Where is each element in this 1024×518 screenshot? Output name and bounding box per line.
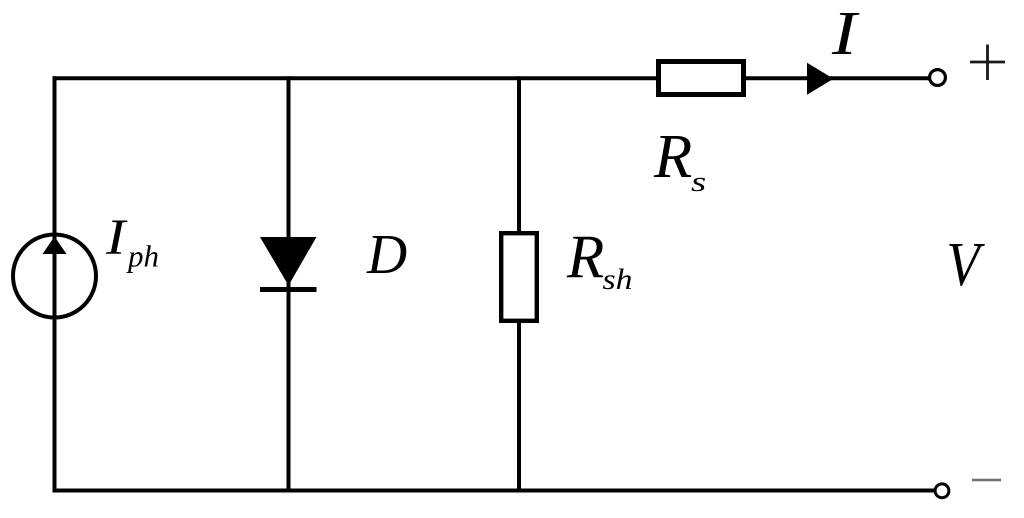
svg-text:D: D [366, 224, 407, 286]
terminal node bottom (-) [935, 484, 949, 498]
wire diode branch vertical [287, 76, 291, 492]
svg-text:R: R [653, 121, 692, 191]
wire bottom horizontal [53, 489, 936, 493]
wire Rsh branch vertical [517, 76, 521, 492]
resistor Rsh body [501, 233, 537, 321]
svg-text:sh: sh [603, 263, 633, 296]
terminal node top (+) [930, 70, 946, 86]
current arrow I on top wire [807, 63, 834, 95]
svg-text:I: I [105, 209, 128, 265]
svg-text:s: s [691, 166, 706, 198]
svg-text:R: R [566, 224, 604, 291]
diode D cathode bar [260, 287, 317, 292]
svg-text:I: I [831, 0, 860, 68]
current source arrow head [43, 237, 67, 255]
svg-text:ph: ph [126, 239, 159, 274]
resistor Rs body [659, 62, 744, 95]
diode D triangle [260, 237, 317, 286]
plus sign [970, 45, 1005, 81]
wire top horizontal [53, 76, 931, 80]
current source Iph circle [13, 235, 96, 318]
svg-text:V: V [947, 230, 986, 299]
wire left vertical [53, 76, 57, 492]
minus sign [972, 479, 1001, 482]
